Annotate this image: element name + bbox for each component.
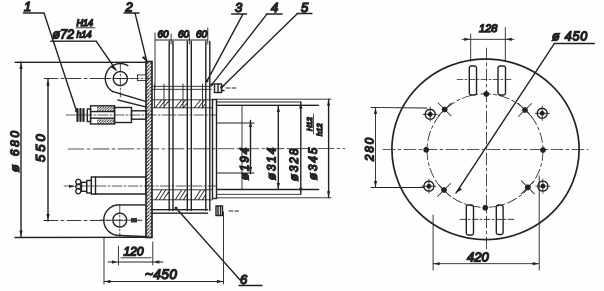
dim 194 xyxy=(249,121,252,174)
svg-text:550: 550 xyxy=(33,131,48,162)
svg-text:128: 128 xyxy=(479,23,498,35)
dim 550 line xyxy=(44,79,150,221)
svg-text:60: 60 xyxy=(178,30,190,41)
dim 60 60 60 bracket xyxy=(155,28,208,88)
dim 680 line xyxy=(15,62,146,238)
svg-text:120: 120 xyxy=(124,245,144,259)
diagonal ticks on 45deg holes xyxy=(438,103,535,197)
svg-text:420: 420 xyxy=(467,250,489,265)
svg-text:h14: h14 xyxy=(77,30,92,40)
svg-text:5: 5 xyxy=(301,0,309,15)
dim ~450 xyxy=(104,212,224,284)
svg-text:h12: h12 xyxy=(315,123,324,136)
top hub band hatched xyxy=(153,100,213,108)
main circle xyxy=(392,59,579,240)
dim 345 xyxy=(327,99,330,198)
svg-text:ø345: ø345 xyxy=(308,146,320,180)
svg-text:ø194: ø194 xyxy=(240,146,252,180)
dim 280 xyxy=(371,108,427,188)
dim 328 xyxy=(299,102,302,194)
disc 3 xyxy=(206,42,210,211)
svg-text:60: 60 xyxy=(196,30,208,41)
center lines xyxy=(383,48,588,252)
disc 2 xyxy=(187,42,191,211)
top bolt xyxy=(78,106,147,124)
svg-text:4: 4 xyxy=(271,0,278,15)
pin in bottom lug xyxy=(131,218,137,223)
pipe lines xyxy=(217,99,332,198)
disc 1 xyxy=(169,42,173,211)
slot verticals in band xyxy=(155,84,203,108)
svg-text:ø 680: ø 680 xyxy=(8,128,22,172)
bottom base lines xyxy=(152,210,208,214)
4 ring holes xyxy=(424,108,548,191)
dim 120 xyxy=(108,242,163,265)
8 bolt holes xyxy=(423,91,546,211)
svg-text:H12: H12 xyxy=(305,116,314,131)
svg-text:ø314: ø314 xyxy=(267,146,279,180)
main centerline xyxy=(68,148,345,150)
bottom right bolt xyxy=(216,206,239,216)
svg-text:H14: H14 xyxy=(77,18,94,28)
tick marks on ring holes xyxy=(422,106,550,193)
small hole in plate xyxy=(138,75,146,81)
dim 128 xyxy=(462,28,514,62)
eye lug centerlines xyxy=(103,64,147,97)
svg-text:ø328: ø328 xyxy=(289,147,301,181)
bottom lug xyxy=(104,205,146,237)
svg-text:ø 450: ø 450 xyxy=(552,30,588,44)
flange plate hatched xyxy=(146,62,152,238)
bottom slots xyxy=(460,205,515,235)
eye lug top xyxy=(105,64,146,107)
svg-text:ø72: ø72 xyxy=(53,28,75,42)
top right bolt xyxy=(215,84,237,93)
dim 314 xyxy=(277,105,280,189)
bottom bolt xyxy=(76,177,146,194)
end ring xyxy=(213,100,217,199)
svg-text:280: 280 xyxy=(365,136,377,162)
top slots xyxy=(457,66,512,95)
bottom hub band hatched xyxy=(153,190,213,200)
svg-text:1: 1 xyxy=(24,0,31,14)
svg-text:60: 60 xyxy=(158,30,170,41)
label H12/h12 fraction xyxy=(305,114,324,136)
dim 420 xyxy=(433,176,539,270)
bolt circle xyxy=(427,94,543,208)
svg-text:~450: ~450 xyxy=(145,267,177,282)
svg-text:6: 6 xyxy=(240,272,248,287)
svg-text:3: 3 xyxy=(235,0,243,15)
top slot lines xyxy=(153,86,212,89)
